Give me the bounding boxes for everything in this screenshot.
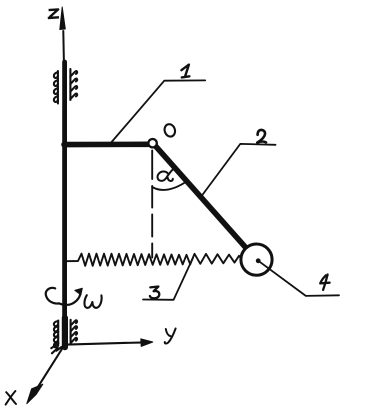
label O (italic letter near pin) bbox=[163, 123, 177, 138]
label 2 bbox=[257, 130, 266, 143]
label 4 bbox=[320, 275, 329, 290]
label 3 bbox=[150, 287, 159, 299]
bottom bearing left wall bbox=[54, 321, 58, 348]
leader line label 4 bbox=[259, 261, 339, 296]
shaft (vertical rotating rod) bbox=[62, 62, 67, 347]
label 1 bbox=[181, 65, 189, 78]
spring 3 bbox=[66, 254, 190, 266]
omega arrowhead bbox=[75, 288, 83, 295]
leader line label 2 bbox=[201, 144, 275, 197]
shaft bottom thick section bbox=[62, 318, 68, 347]
pin joint O bbox=[148, 139, 156, 147]
axis z arrow bbox=[60, 7, 66, 62]
omega rotation arrow bbox=[46, 288, 81, 305]
axis y bbox=[67, 339, 153, 347]
label omega bbox=[84, 295, 101, 308]
ground hatches below origin bbox=[51, 343, 61, 353]
leader line label 1 bbox=[110, 80, 205, 143]
ball 4 bbox=[241, 244, 272, 275]
axis x bbox=[27, 347, 64, 404]
bottom bearing right wall bbox=[71, 320, 77, 343]
label alpha bbox=[158, 168, 175, 181]
rod 2 (pendulum rod) bbox=[156, 146, 248, 249]
ball center dot bbox=[256, 258, 261, 263]
leader line label 3 bbox=[143, 258, 193, 300]
label y bbox=[165, 329, 176, 344]
top bearing right wall bbox=[70, 69, 77, 100]
angle alpha arc bbox=[152, 182, 186, 190]
label x bbox=[6, 391, 16, 405]
dashed vertical reference line bbox=[151, 151, 153, 258]
top bearing left wall bbox=[54, 71, 58, 104]
spring 3 right soft coils bbox=[190, 254, 241, 264]
rod 1 (horizontal arm) bbox=[64, 142, 148, 148]
axis z label bbox=[48, 9, 59, 18]
